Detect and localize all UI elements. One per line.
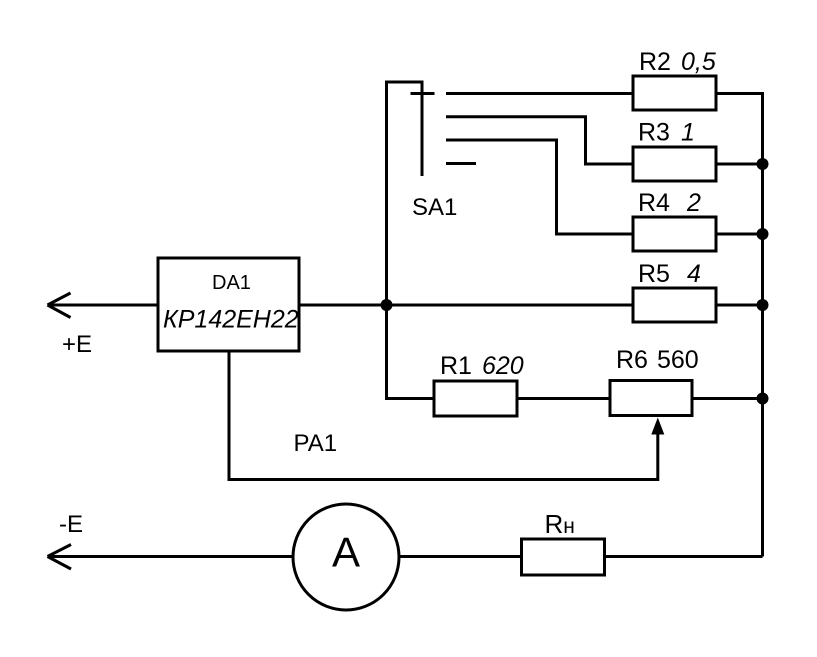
resistor R2 xyxy=(633,76,716,110)
svg-text:-E: -E xyxy=(59,511,83,538)
wire -E rail xyxy=(48,555,294,558)
resistor R4 xyxy=(633,217,716,251)
wire right bus vertical xyxy=(717,94,763,557)
switch SA1 xyxy=(385,81,476,306)
wire R3 to bus xyxy=(716,163,763,166)
svg-text:PA1: PA1 xyxy=(294,430,338,457)
svg-text:R1620: R1620 xyxy=(440,352,524,380)
svg-text:R31: R31 xyxy=(638,119,695,147)
ammeter PA1 xyxy=(293,504,399,610)
resistor R3 xyxy=(633,147,716,181)
resistor Rn xyxy=(522,539,605,575)
svg-text:+E: +E xyxy=(62,331,92,358)
svg-text:R6560: R6560 xyxy=(616,346,699,374)
wire R6 to bus xyxy=(692,397,763,400)
svg-text:R54: R54 xyxy=(638,260,701,288)
wire R1 to R6 xyxy=(517,397,610,400)
wire R4 to bus xyxy=(716,233,763,236)
svg-text:КР142ЕН22: КР142ЕН22 xyxy=(163,306,299,334)
wire SA1 contact3 to R4 xyxy=(446,140,633,234)
node R6-bus junction xyxy=(757,393,769,405)
resistor R5 xyxy=(633,288,716,322)
node DA1-out junction xyxy=(381,299,393,311)
wire DA1 adj to R6 wiper xyxy=(229,351,658,480)
wire rail to R5 xyxy=(299,304,633,307)
wire junction down to R1 xyxy=(387,305,435,399)
node R3-bus junction xyxy=(757,158,769,170)
wire SA1 contact1 to R2 xyxy=(446,92,633,95)
arrow -E xyxy=(48,545,72,570)
svg-text:R42: R42 xyxy=(638,189,701,217)
wire +E rail xyxy=(48,304,159,307)
svg-text:SA1: SA1 xyxy=(412,194,457,221)
IC DA1 xyxy=(158,258,299,351)
resistor R1 xyxy=(434,381,517,416)
wire SA1 contact2 to R3 xyxy=(446,117,633,164)
svg-text:DA1: DA1 xyxy=(212,272,251,294)
node R5-bus junction xyxy=(757,299,769,311)
wire Rn to bus xyxy=(605,555,763,558)
wire R5 to bus xyxy=(716,304,763,307)
svg-text:A: A xyxy=(332,529,360,576)
potentiometer R6 xyxy=(610,381,692,416)
node R4-bus junction xyxy=(757,228,769,240)
wire ammeter to Rn xyxy=(399,555,522,558)
arrow +E xyxy=(48,293,71,318)
wiper arrow of R6 xyxy=(651,418,664,435)
